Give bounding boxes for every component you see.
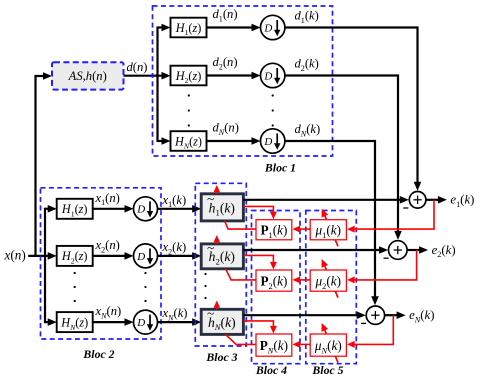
svg-text:dN(n): dN(n) — [213, 121, 239, 137]
label Bloc 5 — [311, 363, 343, 377]
block mu_1(k) — [310, 220, 346, 240]
dots bloc1 — [188, 94, 274, 126]
svg-text:x2(n): x2(n) — [95, 238, 120, 254]
svg-text:D: D — [136, 251, 145, 263]
svg-text:Bloc 3: Bloc 3 — [205, 350, 237, 364]
wire htilde_N output — [243, 311, 365, 319]
wire e_2(k) output — [407, 246, 428, 254]
dots bloc3 — [204, 273, 206, 299]
downsampler DN bloc1 — [261, 129, 285, 153]
label x_2(k) — [162, 240, 187, 256]
block HN(z) bloc2 — [57, 312, 93, 332]
red feedback e_N to mu_N — [347, 315, 393, 348]
wire H1 to D bloc1 — [207, 24, 261, 32]
downsampler D2 bloc2 — [134, 244, 158, 268]
svg-text:D: D — [263, 22, 272, 34]
svg-text:Bloc 5: Bloc 5 — [311, 363, 343, 377]
wire htilde_2 output — [243, 246, 388, 254]
red wire htilde_2 to P_2 — [243, 255, 277, 269]
label x_1(n) — [95, 191, 120, 207]
adaptive filter htilde_2(k) — [201, 240, 243, 268]
bloc5 dashed box — [306, 211, 357, 364]
downsampler DN bloc2 — [134, 310, 158, 334]
bloc2 dashed box — [41, 188, 162, 339]
svg-text:e1(k): e1(k) — [450, 193, 474, 209]
label d_N(n) — [213, 121, 239, 137]
wire e_1(k) output — [426, 196, 447, 204]
red adapt arrow htilde_1 — [214, 185, 221, 194]
wire e_N(k) output — [385, 311, 406, 319]
svg-text:μ2(k): μ2(k) — [315, 274, 341, 291]
label d_1(k) — [295, 9, 319, 25]
svg-text:~: ~ — [207, 191, 214, 206]
wire d_2(k) to junction — [285, 76, 402, 240]
label d_2(k) — [295, 57, 319, 73]
wire d_N(k) to junction — [285, 141, 379, 305]
block H2(z) bloc1 — [171, 66, 207, 86]
svg-text:H2(z): H2(z) — [175, 69, 202, 85]
label Bloc 3 — [205, 350, 237, 364]
svg-text:PN(k): PN(k) — [260, 338, 288, 355]
wire x_2(k) to htilde — [158, 252, 202, 260]
label x(n) — [4, 248, 26, 263]
label x_2(n) — [95, 238, 120, 254]
label e_2(k) — [432, 243, 456, 259]
adaptive filter htilde_N(k) — [201, 306, 243, 335]
wire d_1(k) to junction — [285, 28, 421, 191]
downsampler D1 bloc1 — [261, 15, 285, 39]
bloc1 bus wire — [156, 27, 158, 143]
label Bloc 2 — [82, 347, 114, 361]
red wire P_N to htilde_N — [226, 334, 256, 344]
red adapt diagonal mu_2 — [322, 259, 339, 298]
svg-text:eN(k): eN(k) — [409, 308, 434, 324]
block H1(z) bloc1 — [171, 18, 207, 38]
bloc4 dashed box — [252, 211, 301, 364]
wire x(n) input — [28, 252, 57, 260]
svg-text:Bloc 2: Bloc 2 — [82, 347, 114, 361]
block P_2(k) — [256, 270, 292, 291]
svg-text:x2(k): x2(k) — [162, 240, 187, 256]
label Bloc 4 — [255, 363, 287, 377]
red wire htilde_1 to P_1 — [243, 206, 277, 219]
svg-text:P2(k): P2(k) — [260, 274, 287, 291]
svg-text:d2(n): d2(n) — [213, 55, 238, 71]
svg-text:μ1(k): μ1(k) — [315, 223, 341, 240]
svg-text:dN(k): dN(k) — [295, 122, 321, 138]
svg-text:D: D — [136, 204, 145, 216]
label d_1(n) — [213, 7, 238, 23]
block H2(z) bloc2 — [57, 246, 93, 266]
label x_N(k) — [162, 306, 188, 322]
svg-text:x(n): x(n) — [4, 248, 26, 263]
summing junction e_N — [361, 306, 384, 324]
red adapt arrow htilde_N — [214, 301, 221, 310]
svg-text:d1(n): d1(n) — [213, 7, 238, 23]
svg-text:d2(k): d2(k) — [295, 57, 319, 73]
block AS h(n) — [52, 62, 124, 89]
wire x_N(k) to htilde — [158, 318, 202, 326]
svg-text:H1(z): H1(z) — [61, 202, 88, 218]
wire bus to HN(z) bloc1 — [158, 137, 171, 145]
svg-text:e2(k): e2(k) — [432, 243, 456, 259]
red adapt diagonal mu_1 — [322, 209, 338, 247]
wire bus to H1(z) bloc2 — [45, 205, 57, 213]
wire d(n) — [124, 72, 171, 80]
label d(n) — [127, 60, 148, 74]
wire HN to D bloc1 — [207, 137, 261, 145]
label x_N(n) — [95, 304, 122, 320]
red wire P_2 to htilde_2 — [226, 269, 256, 280]
summing junction e_2 — [384, 241, 408, 260]
wire bus to H1(z) bloc1 — [158, 24, 171, 32]
wire x_1(k) to htilde — [158, 205, 202, 213]
svg-text:P1(k): P1(k) — [260, 223, 287, 240]
svg-text:H1(z): H1(z) — [175, 21, 202, 37]
wire x(n) up to AS — [36, 72, 53, 256]
svg-text:μN(k): μN(k) — [314, 338, 342, 355]
red wire mu_N to P_N — [293, 341, 311, 348]
svg-text:D: D — [263, 136, 272, 148]
svg-text:AS,h(n): AS,h(n) — [68, 69, 107, 83]
svg-text:~: ~ — [207, 240, 214, 255]
svg-text:Bloc 1: Bloc 1 — [264, 161, 296, 175]
dots bloc2 — [74, 272, 147, 302]
svg-text:x1(k): x1(k) — [162, 193, 187, 209]
label Bloc 1 — [264, 161, 296, 175]
downsampler D2 bloc1 — [261, 63, 285, 87]
wire H1 to D bloc2 — [93, 205, 134, 213]
block H1(z) bloc2 — [57, 199, 93, 219]
red wire P_1 to htilde_1 — [225, 221, 256, 229]
red feedback e_2 to mu_2 — [347, 250, 417, 283]
red wire htilde_N to P_N — [243, 321, 277, 334]
svg-text:H2(z): H2(z) — [61, 249, 88, 265]
block mu_2(k) — [310, 270, 346, 291]
svg-text:D: D — [136, 317, 145, 329]
summing junction e_1 — [403, 192, 426, 209]
downsampler D1 bloc2 — [134, 197, 158, 221]
wire H2 to D bloc1 — [207, 72, 261, 80]
svg-text:xN(n): xN(n) — [95, 304, 122, 320]
svg-text:~: ~ — [207, 306, 214, 321]
bloc1 dashed box — [153, 6, 333, 156]
label e_1(k) — [450, 193, 474, 209]
svg-text:d1(k): d1(k) — [295, 9, 319, 25]
red feedback e_1 to mu_1 — [347, 200, 434, 233]
wire bus to HN(z) bloc2 — [45, 318, 57, 326]
svg-text:d(n): d(n) — [127, 60, 148, 74]
label e_N(k) — [409, 308, 434, 324]
svg-text:D: D — [263, 70, 272, 82]
bloc2 bus wire — [44, 208, 46, 323]
label d_N(k) — [295, 122, 321, 138]
svg-text:Bloc 4: Bloc 4 — [255, 363, 287, 377]
svg-text:x1(n): x1(n) — [95, 191, 120, 207]
label x_1(k) — [162, 193, 187, 209]
block P_N(k) — [256, 334, 292, 356]
svg-text:xN(k): xN(k) — [162, 306, 188, 322]
wire HN to D bloc2 — [93, 318, 134, 326]
red adapt arrow htilde_2 — [214, 235, 221, 244]
block HN(z) bloc1 — [171, 131, 207, 151]
red wire mu_1 to P_1 — [293, 226, 311, 233]
adaptive filter htilde_1(k) — [201, 191, 243, 221]
label d_2(n) — [213, 55, 238, 71]
block mu_N(k) — [310, 334, 346, 356]
red adapt diagonal mu_N — [321, 323, 338, 363]
bloc3 dashed box — [195, 183, 246, 346]
wire htilde_1 output — [243, 196, 408, 204]
block P_1(k) — [256, 220, 292, 240]
wire H2 to D bloc2 — [93, 252, 134, 260]
red wire mu_2 to P_2 — [293, 276, 311, 283]
